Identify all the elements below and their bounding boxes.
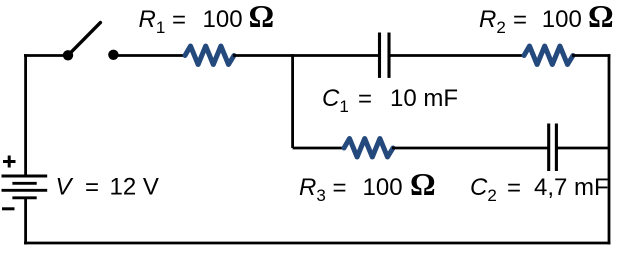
svg-text:C2: C2: [470, 174, 497, 205]
wire: battery negative plate down to bottom rail: [24, 198, 27, 245]
svg-text:=: =: [333, 175, 347, 202]
wire: lower branch left segment (node A to R3): [293, 147, 345, 150]
svg-text:=: =: [358, 86, 372, 113]
svg-text:=: =: [513, 7, 527, 34]
label R2 value: [479, 0, 614, 37]
wire: left vertical rail (top wire down to battery top plate): [24, 54, 27, 176]
resistor R3: [344, 139, 393, 158]
switch S1 (open knife switch): [63, 23, 119, 61]
wire: R3 to capacitor C2: [392, 147, 549, 150]
svg-text:Ω: Ω: [249, 0, 275, 34]
svg-text:100: 100: [542, 6, 582, 33]
svg-text:12 V: 12 V: [110, 174, 159, 201]
wire: top-left horizontal (left rail to switch pole): [24, 54, 64, 57]
svg-text:Ω: Ω: [588, 0, 614, 34]
battery V (two-cell plate stack): [2, 176, 48, 198]
capacitor C1: [380, 33, 390, 78]
label battery polarity +: [3, 156, 16, 168]
svg-text:R3: R3: [299, 174, 326, 205]
svg-text:4,7 mF: 4,7 mF: [534, 174, 609, 201]
label R1 value: [139, 0, 275, 37]
wire: R2 to right vertical rail: [572, 54, 610, 57]
svg-text:=: =: [507, 175, 521, 202]
svg-text:100: 100: [203, 6, 243, 33]
label C2 value: [470, 174, 609, 205]
wire: C2 to right vertical rail: [556, 147, 609, 150]
svg-text:=: =: [85, 174, 99, 201]
junction: parallel branch split at node A: [291, 54, 294, 148]
svg-text:R2: R2: [479, 6, 506, 37]
svg-text:C1: C1: [322, 85, 349, 116]
label battery voltage: [56, 174, 159, 202]
label battery polarity -: [2, 207, 15, 210]
wire: R1 to capacitor C1 (through junction node A): [233, 54, 380, 57]
resistor R2: [524, 46, 573, 65]
wire: right vertical rail: [608, 54, 611, 244]
wire: C1 to resistor R2: [389, 54, 525, 57]
svg-text:10 mF: 10 mF: [390, 85, 458, 112]
wire: bottom return rail: [24, 242, 610, 245]
resistor R1: [185, 46, 234, 65]
svg-text:V: V: [56, 174, 74, 201]
wire: switch throw to resistor R1: [113, 54, 186, 57]
label R3 value: [299, 166, 436, 205]
svg-text:=: =: [172, 7, 186, 34]
svg-text:100: 100: [363, 174, 403, 201]
capacitor C2: [549, 124, 557, 172]
svg-text:R1: R1: [139, 6, 166, 37]
label C1 value: [322, 85, 458, 116]
svg-text:Ω: Ω: [410, 166, 436, 202]
